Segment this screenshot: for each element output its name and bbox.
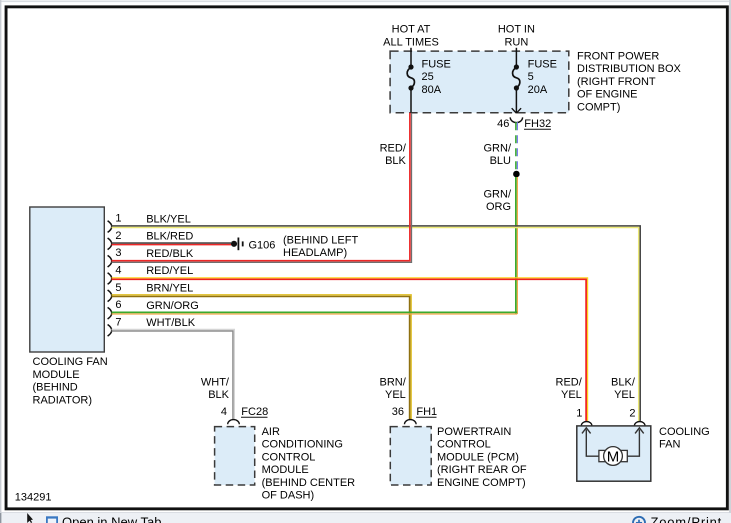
label WHT/BLK: [201, 377, 230, 402]
svg-text:80A: 80A: [422, 84, 442, 96]
svg-text:CONDITIONING: CONDITIONING: [262, 439, 343, 451]
svg-text:(RIGHT FRONT: (RIGHT FRONT: [577, 76, 656, 88]
wire 7 WHT/BLK pin7 to AC module: [112, 330, 235, 420]
splice node: [513, 171, 520, 178]
fuse F25 (FUSE 25 80A): [407, 58, 451, 96]
connector FH32 (pin 46): [497, 117, 551, 129]
svg-text:HEADLAMP): HEADLAMP): [283, 247, 347, 259]
svg-text:134291: 134291: [15, 492, 52, 504]
svg-text:CONTROL: CONTROL: [262, 451, 316, 463]
svg-text:FH32: FH32: [524, 118, 551, 130]
svg-text:M: M: [607, 448, 620, 465]
wire 5 BRN/YEL pin5 to PCM: [112, 295, 412, 420]
svg-text:MODULE (PCM): MODULE (PCM): [437, 451, 519, 463]
svg-text:4: 4: [115, 265, 121, 277]
fuse F5 (FUSE 5 20A): [513, 58, 557, 96]
svg-text:BLK/YEL: BLK/YEL: [146, 213, 191, 225]
label RED/YEL: [556, 377, 583, 402]
cooling fan pin 1 connector: [576, 408, 592, 426]
svg-text:POWERTRAIN: POWERTRAIN: [437, 426, 511, 438]
connector FC28 (pin 4): [221, 406, 268, 424]
motor M1 terminals: [599, 450, 606, 461]
svg-text:AIR: AIR: [262, 426, 280, 438]
wire GRN/BLU dashed from FH32 to splice: [484, 122, 518, 171]
svg-text:RUN: RUN: [504, 37, 528, 49]
label BLK/YEL: [611, 377, 636, 402]
svg-text:4: 4: [221, 406, 227, 418]
svg-text:2: 2: [629, 408, 635, 420]
svg-text:RED/BLK: RED/BLK: [146, 248, 194, 260]
svg-text:BRN/: BRN/: [380, 377, 407, 389]
svg-text:CONTROL: CONTROL: [437, 439, 491, 451]
svg-text:(BEHIND: (BEHIND: [33, 382, 78, 394]
svg-text:(BEHIND LEFT: (BEHIND LEFT: [283, 234, 358, 246]
svg-text:WHT/: WHT/: [201, 377, 230, 389]
new tab icon: [46, 516, 58, 523]
svg-text:FUSE: FUSE: [422, 58, 451, 70]
svg-text:36: 36: [392, 406, 404, 418]
svg-text:BLK: BLK: [385, 155, 406, 167]
svg-text:BRN/YEL: BRN/YEL: [146, 283, 193, 295]
svg-text:25: 25: [422, 71, 434, 83]
motor M1: [604, 447, 623, 466]
wire 2 BLK/RED pin2 to G106: [112, 243, 232, 245]
svg-text:FH1: FH1: [416, 406, 437, 418]
label cooling fan: [659, 426, 710, 451]
svg-text:HOT IN: HOT IN: [498, 23, 535, 35]
svg-text:Open in New Tab: Open in New Tab: [62, 515, 162, 523]
svg-text:OF ENGINE: OF ENGINE: [577, 89, 638, 101]
svg-text:YEL: YEL: [385, 389, 406, 401]
svg-text:OF DASH): OF DASH): [262, 490, 315, 502]
wire 1 BLK/YEL pin1 to cooling fan pin2: [112, 226, 641, 421]
svg-text:20A: 20A: [528, 84, 548, 96]
svg-text:MODULE: MODULE: [33, 369, 80, 381]
svg-text:DISTRIBUTION BOX: DISTRIBUTION BOX: [577, 63, 682, 75]
svg-text:COOLING: COOLING: [659, 426, 710, 438]
svg-text:1: 1: [576, 408, 582, 420]
wire labels: [146, 213, 199, 329]
svg-text:ALL TIMES: ALL TIMES: [383, 37, 439, 49]
svg-text:BLU: BLU: [490, 155, 511, 167]
svg-text:6: 6: [115, 299, 121, 311]
label air conditioning control module: [262, 426, 356, 502]
wire 4 RED/YEL pin4 to cooling fan pin1: [112, 278, 588, 421]
svg-text:ENGINE COMPT): ENGINE COMPT): [437, 477, 526, 489]
label front power distribution box: [577, 50, 682, 113]
page right edge line: [729, 0, 731, 523]
svg-text:46: 46: [497, 118, 509, 130]
fan internal wire pin1 with arrow: [582, 428, 599, 456]
svg-text:1: 1: [115, 213, 121, 225]
wire: lead into fuse 5: [515, 48, 517, 67]
svg-text:5: 5: [528, 71, 534, 83]
label HOT AT ALL TIMES: [383, 23, 439, 48]
svg-text:HOT AT: HOT AT: [392, 23, 431, 35]
svg-text:RED/YEL: RED/YEL: [146, 265, 193, 277]
ground G106: [231, 234, 359, 259]
svg-text:Zoom/Print: Zoom/Print: [651, 515, 723, 523]
svg-text:FRONT POWER: FRONT POWER: [577, 50, 659, 62]
wire GRN/ORG vertical from splice to wire 6: [484, 177, 518, 314]
svg-text:BLK/RED: BLK/RED: [146, 231, 193, 243]
bottom toolbar: [0, 513, 731, 523]
cooling fan module box: [30, 207, 105, 352]
svg-text:WHT/BLK: WHT/BLK: [146, 317, 196, 329]
svg-text:FAN: FAN: [659, 439, 680, 451]
connector FH1 (pin 36): [392, 406, 437, 424]
svg-text:2: 2: [115, 230, 121, 242]
wire: lead from fuse 25 to box edge: [410, 88, 412, 113]
svg-text:BLK/: BLK/: [611, 377, 636, 389]
wire 3 RED/BLK pin3 to fuse 25: [112, 113, 412, 263]
cursor icon: [27, 513, 33, 523]
svg-text:7: 7: [115, 316, 121, 328]
cooling fan box: [577, 426, 651, 481]
svg-text:RADIATOR): RADIATOR): [33, 394, 93, 406]
PCM box: [390, 427, 431, 485]
label powertrain control module: [437, 426, 527, 489]
svg-text:(RIGHT REAR OF: (RIGHT REAR OF: [437, 464, 527, 476]
wire: lead from fuse 5 with arrow to FH32: [512, 88, 521, 113]
svg-text:GRN/: GRN/: [484, 188, 512, 200]
svg-text:YEL: YEL: [561, 389, 582, 401]
svg-text:FC28: FC28: [241, 406, 268, 418]
svg-text:ORG: ORG: [486, 201, 511, 213]
zoom icon: [633, 517, 645, 523]
label RED/BLK (riser): [380, 142, 407, 167]
cooling fan pin 2 connector: [629, 408, 645, 426]
svg-text:COOLING FAN: COOLING FAN: [33, 356, 108, 368]
svg-text:BLK: BLK: [208, 389, 229, 401]
pin numbers: [115, 213, 121, 329]
label HOT IN RUN: [498, 23, 535, 48]
label BRN/YEL: [380, 377, 407, 402]
svg-text:COMPT): COMPT): [577, 102, 620, 114]
svg-text:MODULE: MODULE: [262, 464, 309, 476]
svg-text:RED/: RED/: [556, 377, 583, 389]
module pin connectors 1-7: [108, 221, 112, 336]
AC control module box: [215, 427, 255, 485]
svg-text:3: 3: [115, 247, 121, 259]
svg-text:GRN/ORG: GRN/ORG: [146, 300, 199, 312]
fan internal wire pin2 with arrow: [627, 428, 643, 456]
wire: lead into fuse 25: [410, 48, 412, 67]
fuse box: front power distribution box (dashed, blue fill): [390, 51, 569, 113]
page top edge line: [0, 0, 731, 2]
svg-text:5: 5: [115, 282, 121, 294]
wire 6 GRN/ORG pin6 to splice branch: [112, 312, 518, 314]
svg-text:G106: G106: [249, 239, 276, 251]
label cooling fan module: [33, 356, 108, 406]
svg-text:YEL: YEL: [614, 389, 635, 401]
svg-text:FUSE: FUSE: [528, 58, 557, 70]
svg-text:(BEHIND CENTER: (BEHIND CENTER: [262, 477, 356, 489]
page left edge line: [0, 0, 2, 523]
svg-text:RED/: RED/: [380, 142, 407, 154]
svg-text:GRN/: GRN/: [484, 142, 512, 154]
